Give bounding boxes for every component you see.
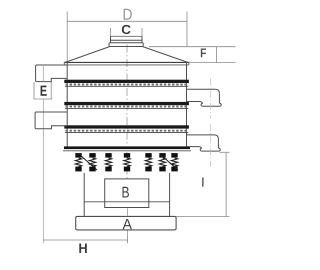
dimension F top extension line: [149, 46, 236, 48]
upper right outlet pipe inner: [187, 102, 203, 104]
body rim left cap: [63, 62, 65, 65]
motor housing right edge: [169, 173, 171, 217]
lower left outlet spout: [35, 112, 67, 129]
deck clamp band 2 (dark): [64, 102, 189, 105]
body right wall: [186, 62, 188, 146]
dimension I line: [225, 152, 227, 216]
bottom plate dark band: [64, 146, 190, 149]
label I: [202, 178, 203, 187]
spring 3: [105, 153, 111, 171]
spring 4: [124, 153, 130, 171]
dimension I top extension line: [220, 151, 230, 153]
deck clamp band 3 (dark): [64, 125, 189, 128]
dimension C extension line right: [141, 28, 143, 36]
spring 7: [171, 153, 177, 171]
body rim top line: [64, 61, 189, 63]
lower right outlet pipe inner: [187, 147, 202, 149]
deck 1 dashed gasket row: [66, 84, 188, 86]
lower right outlet mouth flange: [200, 148, 220, 151]
deck 2 dashed gasket row: [66, 106, 188, 108]
deck 3 dashed gasket row: [66, 130, 188, 132]
label H: [79, 244, 87, 254]
body rim lower line: [64, 64, 189, 66]
spring mount plate line: [63, 150, 191, 152]
label F: [201, 49, 206, 58]
dimension F bottom extension line (rim top extended): [189, 62, 236, 64]
center line bottom segment: [126, 208, 128, 216]
E extension line lower: [42, 99, 44, 243]
spring 5: [145, 153, 151, 171]
deck 2 joint line: [65, 107, 188, 109]
inlet spout cylinder: [111, 36, 143, 42]
E dimension box right line: [50, 82, 52, 99]
dimension D extension line right: [186, 12, 188, 48]
dimension D line: [67, 20, 187, 22]
spring 6: [159, 153, 165, 171]
motor box B: [105, 179, 149, 208]
deck clamp band 1 (dark): [64, 80, 189, 83]
upper left outlet spout: [36, 65, 68, 82]
body rim right cap: [188, 62, 190, 65]
center line (machine vertical axis): [126, 45, 128, 147]
dimension H right tick: [127, 237, 129, 244]
dimension C extension line left: [110, 28, 112, 36]
cross brace right: [161, 155, 178, 170]
dimension I bottom extension line: [176, 215, 229, 217]
spring 2: [89, 153, 95, 171]
motor platform line: [84, 201, 169, 203]
dimension F line: [216, 47, 218, 63]
lower right outlet axis line: [210, 124, 212, 167]
dimension H line: [43, 239, 127, 241]
center line below base: [126, 231, 128, 243]
lower right outlet pipe outer: [187, 135, 219, 148]
inlet flange: [109, 43, 143, 47]
label D: [124, 9, 132, 20]
E dimension box left line: [33, 82, 35, 99]
E extension line upper: [42, 65, 44, 82]
dimension D extension line left: [66, 12, 68, 63]
label C: [122, 25, 131, 34]
dimension C line: [111, 35, 143, 37]
label B: [123, 187, 129, 198]
motor housing left edge: [83, 173, 85, 217]
upper right outlet mouth flange: [201, 103, 221, 106]
deck 1 joint line: [65, 85, 188, 87]
center line lower segment: [126, 152, 128, 178]
upper right outlet pipe outer: [187, 89, 220, 103]
cross brace left: [80, 155, 97, 170]
spring 1: [75, 153, 81, 171]
label A: [123, 219, 133, 229]
base: [76, 216, 176, 230]
deck 3 joint line: [65, 132, 188, 134]
E dimension box bottom line: [34, 98, 53, 100]
upper right outlet axis line: [210, 79, 212, 120]
label E: [41, 86, 47, 96]
springs group: [75, 153, 178, 171]
body left wall: [66, 62, 68, 146]
lid cone left slope: [65, 47, 110, 63]
lid cone right slope: [143, 47, 189, 63]
